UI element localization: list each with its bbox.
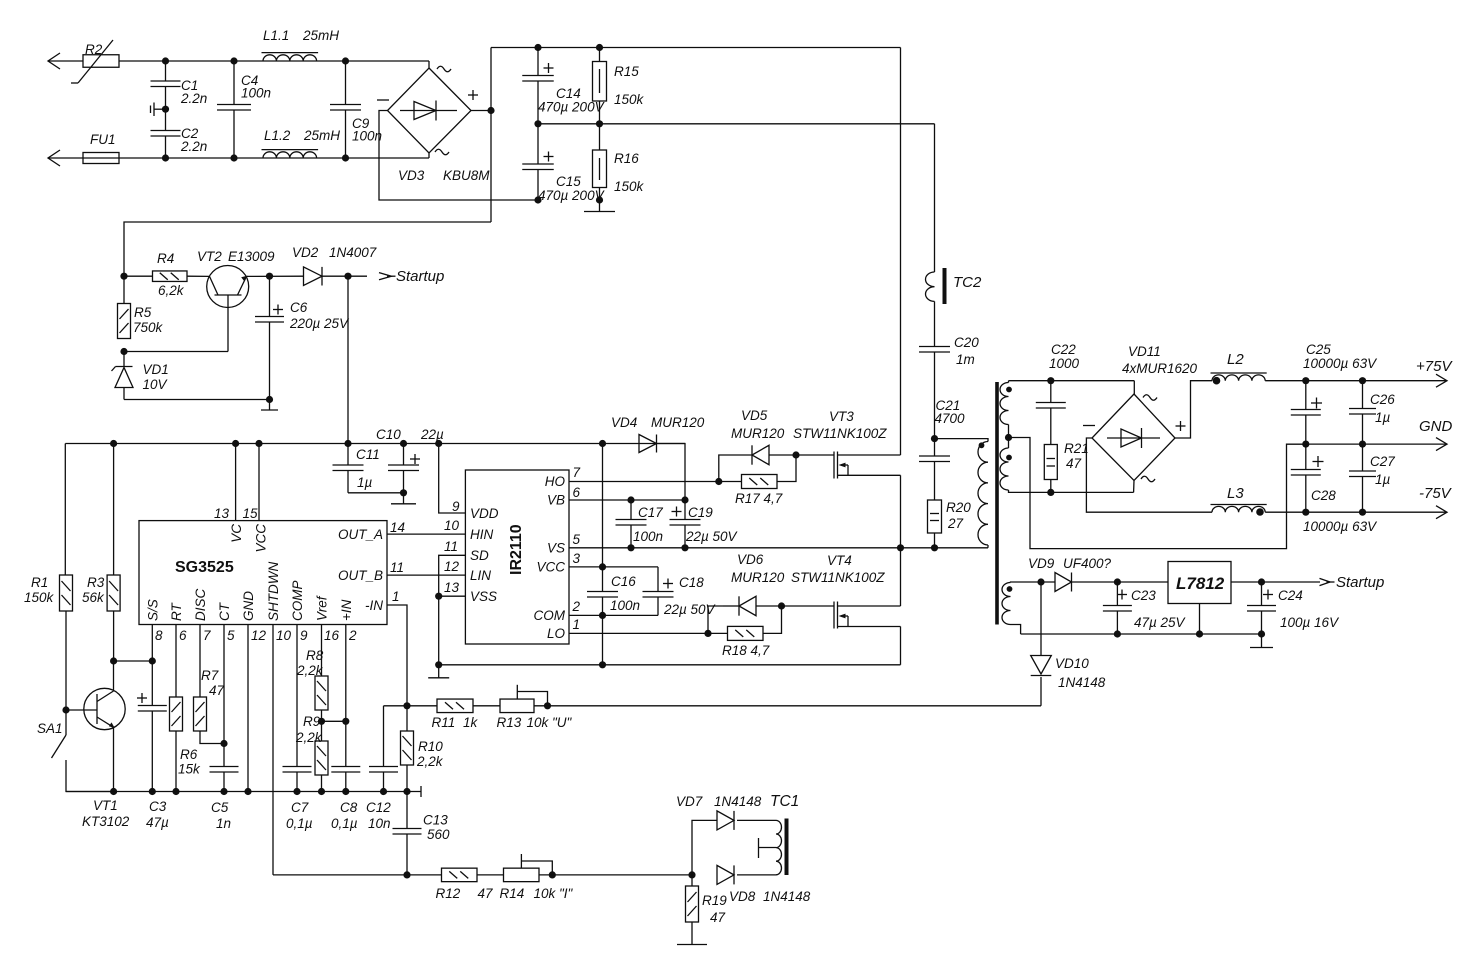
node C25 top [1302,377,1309,384]
capacitor C14 470u 200V [522,48,605,124]
svg-text:100n: 100n [633,529,663,544]
resistor R4 6,2k [124,251,187,298]
capacitor C4 100n [217,61,271,158]
svg-text:10: 10 [276,628,292,643]
node C10 bottom [400,489,407,496]
ground R19 [677,944,707,946]
node VT4 gate [778,602,785,609]
svg-text:R18 4,7: R18 4,7 [722,643,770,658]
node C2 bottom [162,154,169,161]
inductor L2 [1211,351,1267,385]
capacitor C12 10n [366,706,398,831]
svg-text:22µ 50V: 22µ 50V [685,529,739,544]
node VD9 anode [1037,578,1044,585]
svg-text:2.2n: 2.2n [180,139,207,154]
svg-text:COM: COM [534,608,566,623]
resistor R18 4,7 [708,606,782,658]
node R9 bus [318,788,325,795]
node C10 top [400,440,407,447]
pin 2 +IN [339,599,357,766]
diode VD10 1N4148 [1031,582,1106,706]
wire to Startup arrow [348,275,367,277]
transistor Q2 VT4 STW11NK100Z [791,548,901,665]
resistor R3 56k [82,444,120,662]
svg-text:10k "U": 10k "U" [527,715,573,730]
svg-text:2,2k: 2,2k [416,754,444,769]
svg-text:1µ: 1µ [1375,410,1391,425]
node C1-C2 junction [162,106,169,113]
node rail C14 [534,44,541,51]
svg-text:1: 1 [392,589,400,604]
svg-text:MUR120: MUR120 [731,426,785,441]
svg-text:11: 11 [390,560,404,575]
svg-text:1: 1 [573,617,581,632]
svg-text:STW11NK100Z: STW11NK100Z [791,570,885,585]
svg-text:10: 10 [444,518,460,533]
node C24 top [1258,578,1265,585]
svg-text:13: 13 [444,580,460,595]
svg-text:C5: C5 [211,800,229,815]
svg-text:5: 5 [227,628,235,643]
node C27 bottom [1359,509,1366,516]
node C5 bus [220,788,227,795]
svg-text:OUT_B: OUT_B [338,568,383,583]
svg-text:VT2: VT2 [197,249,222,264]
voltage regulator L7812 [1117,562,1320,635]
svg-text:1n: 1n [216,816,231,831]
wire analog bus [66,786,421,797]
svg-text:C24: C24 [1278,588,1303,603]
potentiometer R13 10k U [497,685,573,730]
capacitor C18 22u 50V [643,567,717,617]
resistor R11 1k [407,699,500,730]
wire +310V rail [491,47,901,49]
node C4 top [230,57,237,64]
svg-text:2,2k: 2,2k [295,730,323,745]
node mid R15 [596,120,603,127]
inductor L1.1 25mH [262,28,340,61]
node C8 bus [342,788,349,795]
svg-text:470µ 200V: 470µ 200V [538,188,606,203]
svg-text:1m: 1m [956,352,975,367]
node bridge plus [487,107,494,114]
node C23 gnd [1114,630,1121,637]
transformer TC1 core [785,819,789,876]
svg-text:R15: R15 [614,64,639,79]
node C22 top [1047,377,1054,384]
bridge rectifier VD3 KBU8M [377,61,490,183]
svg-text:15: 15 [243,506,259,521]
node fb junction [403,702,410,709]
node VSS [435,593,442,600]
capacitor C15 470u 200V [522,124,605,203]
svg-text:Vref: Vref [315,595,330,621]
svg-text:100n: 100n [352,129,382,144]
svg-text:L1.2: L1.2 [264,128,291,143]
svg-text:VD2: VD2 [292,245,319,260]
transformer TC1 winding [759,793,800,875]
resistor R6 15k [170,697,202,792]
svg-text:10k "I": 10k "I" [534,886,574,901]
inductor L3 [1211,485,1267,516]
svg-text:R4: R4 [157,251,174,266]
wire +310V riser [490,48,492,223]
transformer TC2 [926,268,982,304]
node VSS ground [435,661,442,668]
svg-text:12: 12 [444,559,460,574]
node R21 bottom [1047,489,1054,496]
node C9 bottom [342,154,349,161]
svg-text:R19: R19 [702,893,727,908]
svg-text:HIN: HIN [470,527,494,542]
svg-text:12: 12 [251,628,267,643]
node VCC rail top [599,440,606,447]
transformer T1 secondary upper [1000,381,1134,425]
svg-text:9: 9 [452,499,460,514]
svg-text:MUR120: MUR120 [651,415,705,430]
resistor R17 4,7 [719,455,796,506]
resistor R20 27 [928,500,972,548]
diode VD9 UF400? [1028,556,1117,592]
svg-text:1N4148: 1N4148 [763,889,811,904]
node S/S column [149,657,156,664]
svg-text:3: 3 [573,551,581,566]
resistor R15 150k [593,48,645,124]
svg-text:R13: R13 [497,715,522,730]
svg-text:R16: R16 [614,151,639,166]
wire gate VT4 [782,605,835,607]
chassis ground at C1/C2 [151,103,166,117]
resistor R8 2,2k [296,648,328,741]
capacitor C7 0,1u [283,767,313,832]
svg-text:VCC: VCC [536,559,565,574]
svg-text:C8: C8 [340,800,358,815]
capacitor C16 100n [587,567,640,616]
svg-text:15k: 15k [178,762,201,777]
node C28 bottom [1302,509,1309,516]
wire VT2 emitter [246,275,303,277]
capacitor C20 1m [919,335,979,367]
node VT1 emitter bus [110,788,117,795]
wire aux ground [1021,633,1262,635]
svg-text:L7812: L7812 [1176,574,1225,593]
node R3 top [110,440,117,447]
svg-text:CT: CT [217,601,232,621]
svg-text:C7: C7 [291,800,309,815]
svg-text:VD9: VD9 [1028,556,1055,571]
wire COM to ground [602,615,604,664]
svg-text:LIN: LIN [470,568,491,583]
svg-text:1N4148: 1N4148 [1058,675,1106,690]
wire bridge plus output [471,110,491,112]
resistor R7 47 [194,668,225,744]
resistor R21 47 [1044,441,1088,492]
svg-text:IR2110: IR2110 [508,524,525,575]
svg-text:R11: R11 [432,715,456,730]
ground C10/C11 [391,493,416,504]
svg-text:13: 13 [214,506,230,521]
svg-text:6: 6 [179,628,187,643]
node R10 bus [403,788,410,795]
wire VT2 base to R5/VD1 [124,351,228,353]
svg-text:VD8: VD8 [729,889,756,904]
terminal Startup left [379,268,444,285]
wire top filter [119,60,429,62]
node C4 bottom [230,154,237,161]
node VCC top [255,440,262,447]
svg-text:R1: R1 [31,575,48,590]
svg-text:VT4: VT4 [827,553,852,568]
transistor VT1 KT3102 [66,661,130,829]
pin 6 RT [169,601,187,697]
svg-text:R6: R6 [180,747,198,762]
svg-text:1N4148: 1N4148 [714,794,762,809]
node GND bus [244,788,251,795]
pin 7 HO [545,465,719,489]
node C13 bottom [403,871,410,878]
wire I feedback [273,874,442,876]
transformer T1 primary [978,442,988,546]
svg-text:STW11NK100Z: STW11NK100Z [793,426,887,441]
capacitor C23 47u 25V [1103,582,1187,634]
capacitor C2 2.2n [151,109,208,158]
wire startup tap down [347,276,349,443]
capacitor C26 1u [1349,381,1395,444]
svg-text:C23: C23 [1131,588,1156,603]
svg-text:OUT_A: OUT_A [338,527,383,542]
node R4/R5 junction [120,273,127,280]
wire C12 to fb node [384,705,408,707]
capacitor C25 10000u 63V [1291,342,1378,444]
node C1 top [162,57,169,64]
node C26 top [1359,377,1366,384]
wire bridge minus to bottom rail [379,111,538,201]
wire VD1 to C6 bottom [124,399,270,401]
wire primary top lead [935,439,989,442]
svg-text:7: 7 [203,628,211,643]
pin 8 S/S [145,599,163,661]
node R13 wiper [544,702,551,709]
svg-text:56k: 56k [82,590,105,605]
switch SA1 [37,706,114,791]
svg-text:C18: C18 [679,575,704,590]
svg-text:2: 2 [348,628,357,643]
node R7/CT [220,740,227,747]
svg-text:VT3: VT3 [829,409,854,424]
pin 1 -IN [365,589,407,706]
resistor R5 750k [118,276,164,338]
node bottom C15 [534,196,541,203]
pin 2 COM [534,599,659,623]
node C17 VB [627,496,634,503]
svg-text:1µ: 1µ [357,475,373,490]
terminal +75V [1416,358,1453,387]
pin 6 VB [547,485,685,508]
svg-text:1k: 1k [463,715,479,730]
node VT3 source VS [897,544,904,551]
op-amp U2 IR2110 body [465,470,569,644]
svg-text:4xMUR1620: 4xMUR1620 [1122,361,1198,376]
diode VD2 1N4007 [292,245,377,286]
node VT3 gate [792,451,799,458]
capacitor C27 1u [1349,444,1395,512]
svg-text:470µ 200V: 470µ 200V [538,100,606,115]
svg-text:C3: C3 [149,799,167,814]
diode VD6 MUR120 [708,552,785,633]
svg-text:TC2: TC2 [953,274,982,291]
svg-text:L3: L3 [1227,485,1244,502]
diode VD7 1N4148 [676,794,776,875]
svg-text:DISC: DISC [193,588,208,621]
node C12 bus [380,788,387,795]
svg-text:VB: VB [547,493,565,508]
svg-text:1N4007: 1N4007 [329,245,377,260]
ground startup [261,400,278,411]
svg-text:VD10: VD10 [1055,656,1089,671]
node R5/VD1 [120,348,127,355]
svg-text:VDD: VDD [470,506,499,521]
node secondary centre tap [1005,425,1012,449]
transistor Q1 VT3 STW11NK100Z [793,48,901,548]
pin 13 VSS [439,580,497,604]
capacitor C10 22u [376,427,444,493]
pin 1 LO [547,617,708,641]
svg-text:47: 47 [478,886,494,901]
svg-text:Startup: Startup [1336,574,1384,591]
node VD7 branch [688,871,695,878]
zener diode VD1 10V [112,352,169,400]
wire bridge minus to L3 [1086,438,1212,512]
diode VD8 1N4148 [717,865,811,904]
pin 7 DISC [193,588,211,697]
svg-text:16: 16 [324,628,340,643]
svg-text:0,1µ: 0,1µ [331,816,358,831]
node COM ground [599,661,606,668]
svg-text:100n: 100n [241,86,271,101]
svg-text:SA1: SA1 [37,721,63,736]
capacitor C21 4700 [919,439,950,500]
svg-text:5: 5 [573,532,581,547]
svg-text:R8: R8 [306,648,324,663]
svg-text:2.2n: 2.2n [180,91,207,106]
pin 13 VC [214,444,244,543]
svg-text:14: 14 [390,520,405,535]
resistor R12 47 [436,868,504,901]
svg-text:R5: R5 [134,305,152,320]
node C6 top [266,273,273,280]
node R6 bus [172,788,179,795]
capacitor C22 1000 [1036,342,1080,445]
node C26 gnd [1359,441,1366,448]
node LO branch [704,630,711,637]
svg-text:R9: R9 [303,714,321,729]
svg-text:C6: C6 [290,300,308,315]
wire C20 to node [935,352,966,439]
svg-text:25mH: 25mH [303,128,340,143]
svg-text:R10: R10 [418,739,443,754]
pin 12 LIN [444,559,491,583]
wire Vcc distribution [65,443,685,445]
pin 15 VCC [243,444,269,553]
diode VD4 MUR120 [611,415,705,500]
node rail R15 [596,44,603,51]
svg-text:LO: LO [547,626,566,641]
svg-text:+IN: +IN [339,599,354,621]
svg-text:C20: C20 [954,335,979,350]
capacitor C5 1n [210,767,239,832]
svg-text:4700: 4700 [935,411,966,426]
wire centre tap return [1009,438,1306,549]
ground primary bus [584,200,615,212]
svg-text:C10: C10 [376,427,401,442]
wire bridge plus to L2 [1175,381,1212,438]
svg-text:C13: C13 [423,813,448,828]
svg-text:C16: C16 [611,574,636,589]
svg-text:C19: C19 [688,505,713,520]
node C17 VS [627,544,634,551]
svg-text:150k: 150k [24,590,55,605]
resistor R10 2,2k [401,706,444,792]
ground logic [428,665,449,678]
pin 10 SHTDWN [266,562,292,875]
diode VD5 MUR120 [719,408,796,482]
wire collector to S/S [114,660,153,662]
node HO branch [715,478,722,485]
svg-text:R2: R2 [85,42,103,57]
svg-text:220µ 25V: 220µ 25V [289,316,350,331]
node mid C14 [534,120,541,127]
capacitor C3 47u [137,661,169,830]
svg-text:6,2k: 6,2k [158,283,185,298]
node R8/R9 [318,718,325,725]
svg-text:47: 47 [209,683,225,698]
svg-text:47: 47 [1066,456,1082,471]
potentiometer R14 10k I [500,854,574,901]
svg-text:R7: R7 [201,668,219,683]
svg-text:FU1: FU1 [90,132,116,147]
svg-text:C17: C17 [638,505,663,520]
wire bottom filter [119,157,429,159]
svg-text:VD4: VD4 [611,415,637,430]
capacitor C11 1u [333,444,380,493]
svg-text:C27: C27 [1370,454,1395,469]
svg-text:22µ: 22µ [420,427,444,442]
wire gate VT3 [796,454,834,456]
node VCC line [599,563,606,570]
capacitor C9 100n [330,61,382,158]
svg-text:SHTDWN: SHTDWN [266,562,281,621]
node R3/VT1 collector [110,657,117,664]
svg-text:VD6: VD6 [737,552,764,567]
node VC top [232,440,239,447]
capacitor C1 2.2n [151,61,208,109]
svg-text:L1.1: L1.1 [263,28,289,43]
svg-text:25mH: 25mH [302,28,339,43]
svg-text:47µ: 47µ [146,815,169,830]
wire divider to +IN [322,720,346,722]
svg-text:8: 8 [155,628,163,643]
wire midpoint to TC2 [934,124,936,272]
inductor L1.2 25mH [262,128,341,158]
svg-text:10000µ 63V: 10000µ 63V [1303,519,1378,534]
svg-text:560: 560 [427,827,450,842]
wire U feedback [534,705,1041,707]
wire R4 to VT2 [187,275,210,277]
ground aux [1250,634,1273,648]
node bottom R16 [596,196,603,203]
svg-text:SD: SD [470,548,489,563]
svg-text:10n: 10n [368,816,391,831]
